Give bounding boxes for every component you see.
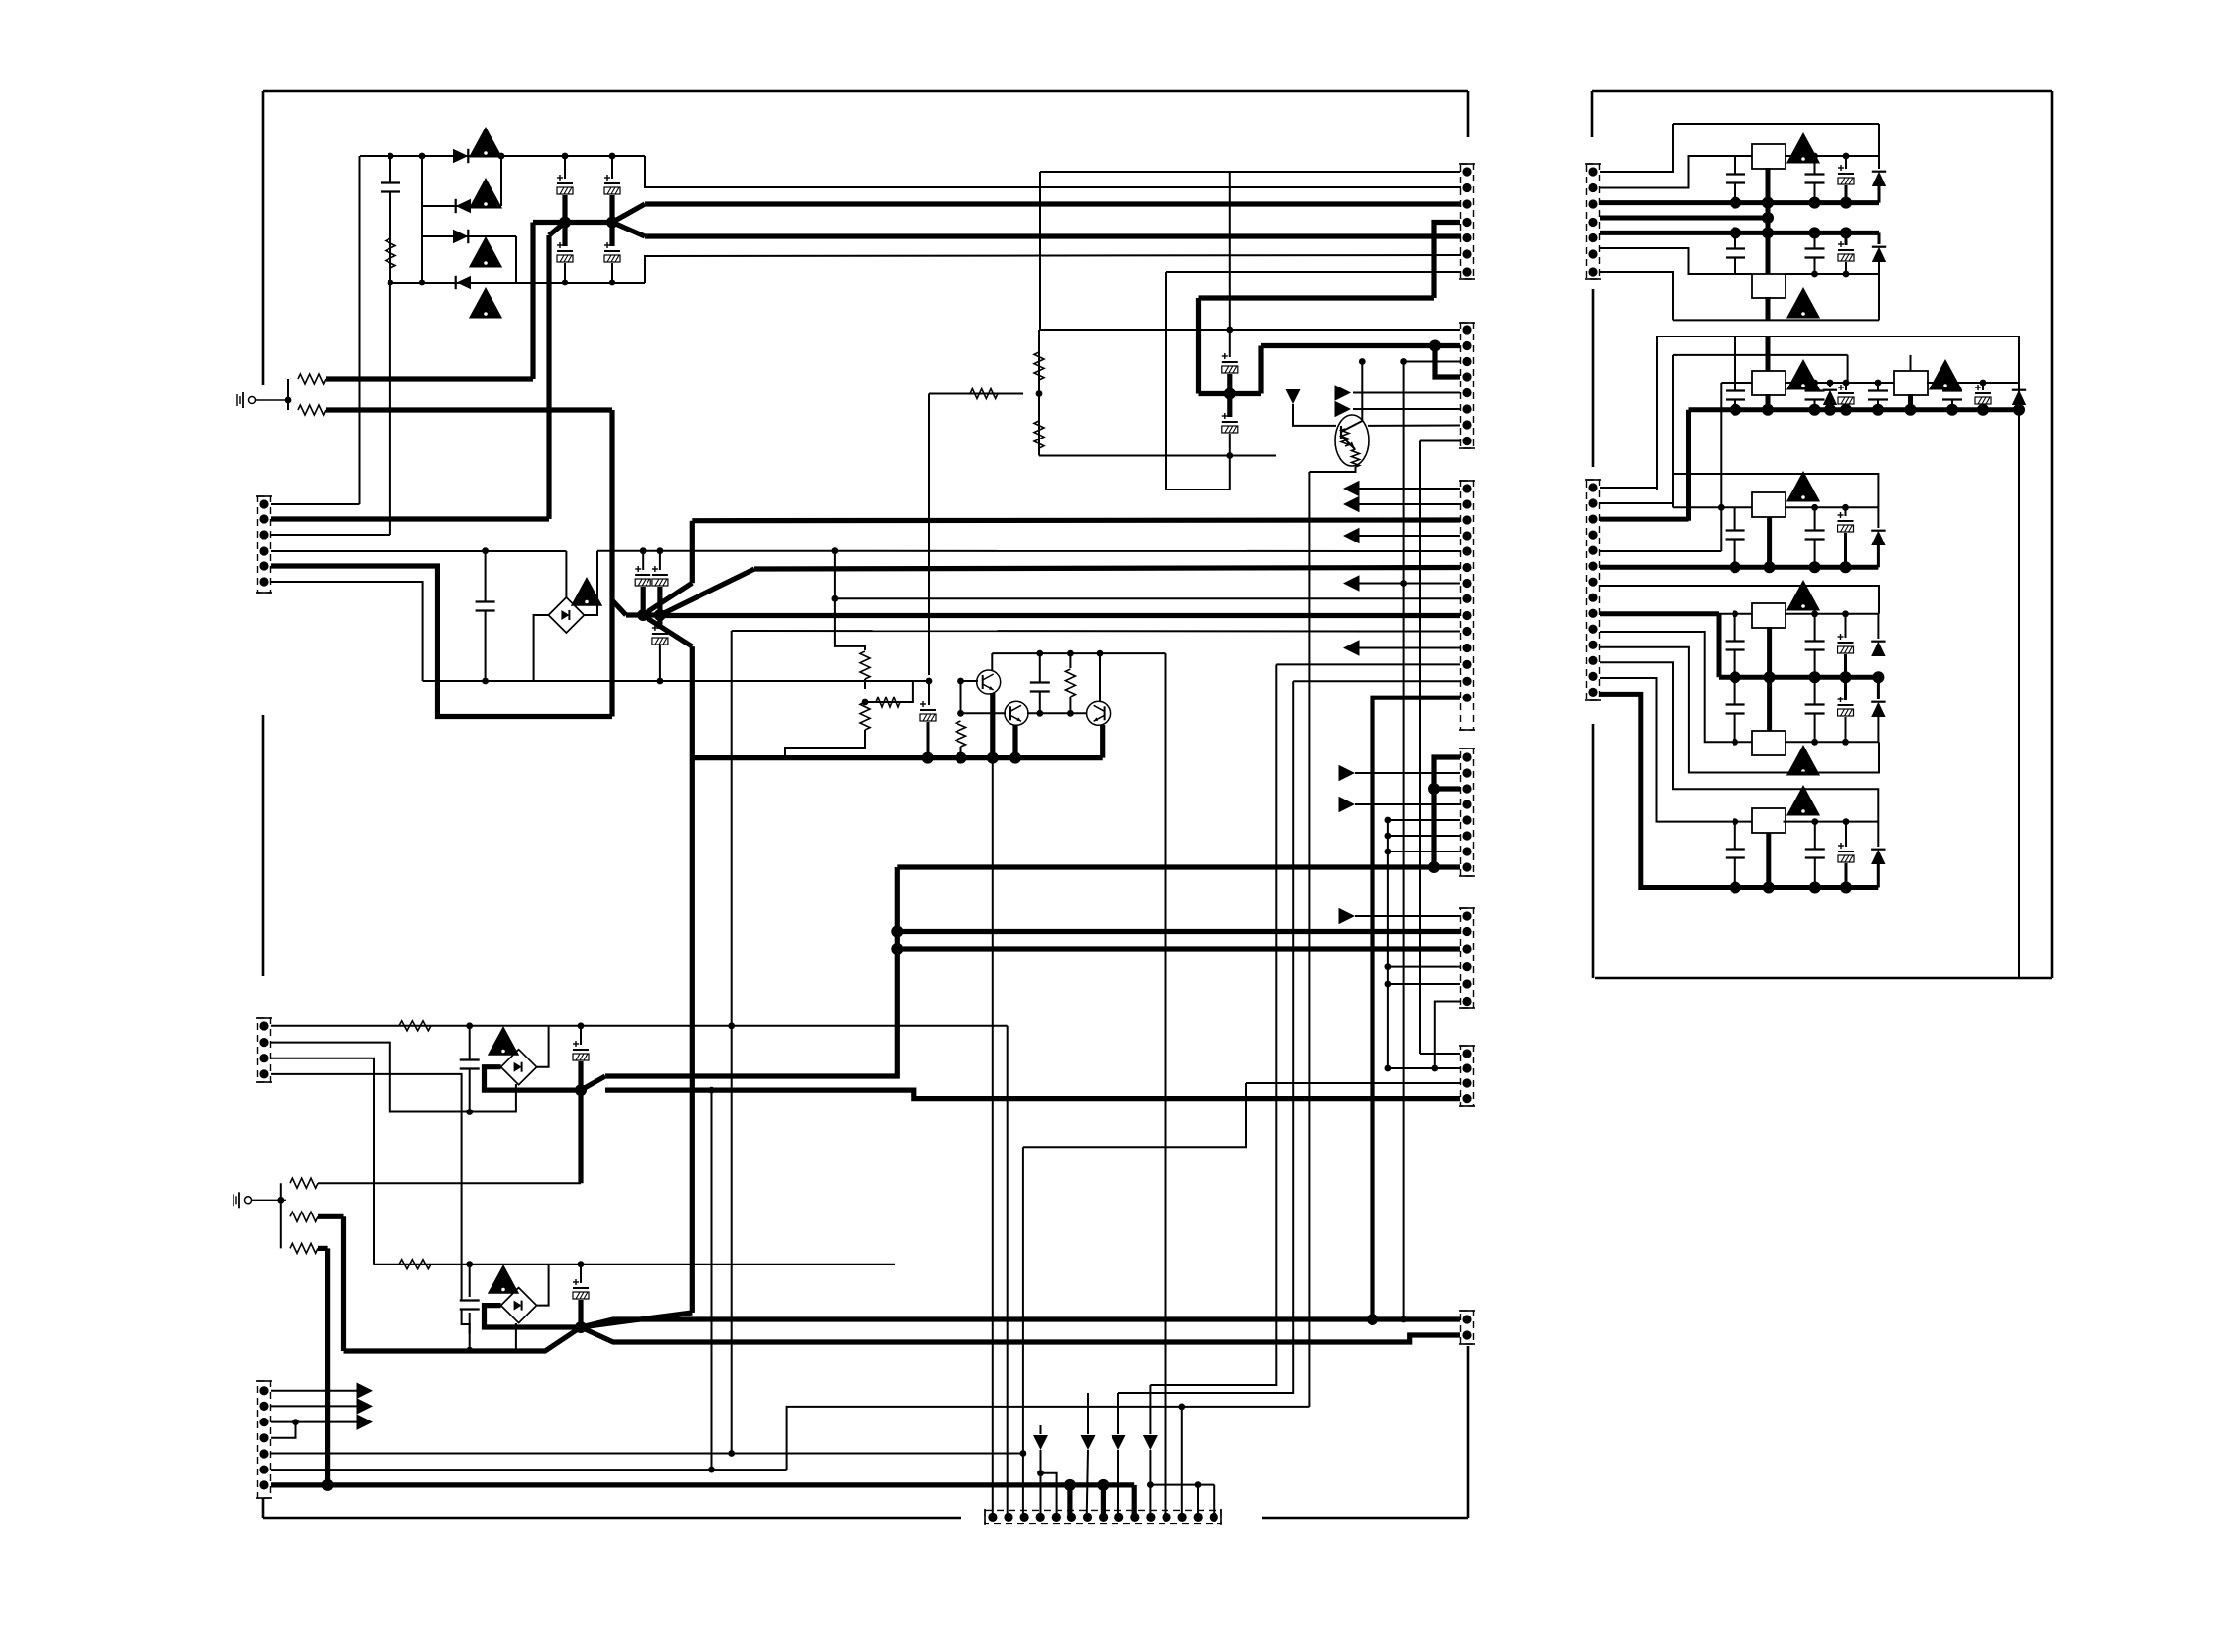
wire CNA pin4 thick elbow bbox=[1434, 223, 1460, 299]
node 610 bbox=[832, 595, 839, 602]
node e in bbox=[1732, 818, 1738, 825]
wire CNL1 pin4 bbox=[271, 550, 566, 552]
node y694 el bbox=[657, 678, 664, 685]
node arrow594 bbox=[1400, 580, 1407, 587]
wire y=643 bbox=[732, 630, 1460, 633]
wire c0 d bot bbox=[1877, 545, 1880, 567]
wire CNG pin2 elbow bbox=[271, 1043, 516, 1112]
capacitor C702 bbox=[1805, 175, 1825, 183]
wire cap col x=576 thick bbox=[562, 195, 567, 223]
node rail c bbox=[1097, 650, 1104, 657]
resistor R3 bbox=[298, 405, 326, 415]
wire thick corner 1156 bbox=[1132, 1485, 1137, 1518]
wire Q1 emitter thick bbox=[990, 693, 995, 758]
wire pairC row1 bbox=[1600, 611, 1719, 616]
wire CNL1 pin3 bbox=[271, 534, 390, 536]
wire capC4 col bbox=[1877, 383, 1879, 410]
resistor R1 bbox=[386, 238, 395, 268]
capacitor C8 bbox=[476, 602, 495, 611]
wire x=745.7 bbox=[731, 631, 733, 1454]
transistor Q602 bbox=[1005, 701, 1028, 725]
wire pairC loop bottom bbox=[1600, 647, 1879, 773]
connector CN606 bbox=[1459, 908, 1475, 1008]
connector CN608 bbox=[1459, 1311, 1475, 1344]
diode D705 bbox=[1871, 531, 1885, 545]
node regA b bbox=[1843, 153, 1850, 160]
node varr d j bbox=[1147, 1481, 1154, 1488]
right board border top bbox=[1592, 90, 2052, 93]
regulator IC703 bbox=[1752, 371, 1785, 395]
wire vert x=1301.3 low bbox=[1150, 664, 1276, 1385]
left board border left upper bbox=[262, 91, 265, 385]
wire br4 out thick bbox=[485, 1306, 582, 1327]
node 561 b bbox=[640, 547, 647, 554]
node railA 2 bbox=[1762, 197, 1774, 209]
capacitor C11 electrolytic bbox=[652, 625, 668, 645]
wire CNB pin4 thick elbow bbox=[1435, 346, 1460, 378]
node rail left bbox=[637, 609, 648, 621]
capacitor C713 bbox=[1726, 531, 1745, 540]
warning triangle W2 bbox=[469, 178, 502, 209]
wire bus3 thick y=241 bbox=[645, 233, 1461, 238]
wire thick drop x=560 bbox=[546, 235, 551, 519]
node cnd3 bbox=[1428, 783, 1440, 795]
wire Q2 base bbox=[961, 712, 1007, 714]
wire thick left drop x=543 bbox=[530, 223, 535, 380]
node railC0 bbox=[1840, 561, 1852, 573]
regulator IC708 bbox=[1752, 808, 1785, 833]
wire CNL1 pin1 bbox=[271, 503, 360, 505]
wire c0 out row bbox=[1785, 506, 1878, 508]
node q2r b bbox=[1067, 710, 1074, 717]
wire pairB loop left bbox=[1656, 336, 1658, 490]
wire br4 cap col bbox=[469, 1265, 471, 1297]
node railE bbox=[1730, 882, 1741, 894]
capacitor C724 electrolytic bbox=[1838, 843, 1854, 862]
node 914 b bbox=[891, 943, 903, 955]
wire br3 el thick bbox=[578, 1061, 583, 1090]
node A5 bbox=[609, 153, 616, 160]
node y694 cap bbox=[482, 678, 489, 685]
arrow down c bbox=[1112, 1435, 1126, 1450]
resistor R8 bbox=[860, 702, 870, 730]
capacitor C704 bbox=[1726, 249, 1745, 258]
wire circA loop right bbox=[1878, 124, 1880, 156]
wire e rail thick bbox=[1600, 694, 1878, 887]
node rowB f bbox=[1980, 380, 1987, 387]
capacitor C722 bbox=[1726, 850, 1745, 858]
node br4 cap bot bbox=[466, 1347, 473, 1354]
wire cap col x=576 bot bbox=[564, 263, 566, 283]
node 745 bottom bbox=[728, 1450, 735, 1457]
ground chassis lower bbox=[233, 1192, 286, 1208]
node br3 el top bbox=[578, 1022, 585, 1029]
capacitor C721 electrolytic bbox=[1838, 697, 1854, 716]
node railA 4 bbox=[1840, 197, 1852, 209]
wire reschain mid bbox=[864, 679, 866, 689]
arrow left y=546 bbox=[1343, 528, 1360, 544]
node 725 top bbox=[708, 1087, 715, 1094]
wire line B y=288 bbox=[390, 282, 645, 284]
node thick 1124 bbox=[1097, 1479, 1109, 1491]
node railA 3 bbox=[1809, 197, 1821, 209]
wire cap col x=624 top bbox=[611, 156, 613, 179]
wire thick X line1 bbox=[581, 1319, 1460, 1327]
wire br3 fan up bbox=[581, 1076, 605, 1090]
node 1042 dot bbox=[1020, 1450, 1027, 1457]
node railPC bbox=[1809, 671, 1821, 683]
wire cnd6 row bbox=[1388, 835, 1460, 837]
node B5 bbox=[609, 280, 616, 286]
wire thick x=1090.9 bbox=[1067, 1485, 1072, 1518]
wire br3 out thick bbox=[485, 1067, 582, 1090]
node 914 a bbox=[891, 926, 903, 938]
wire cap col x=624 thick lower bbox=[609, 223, 614, 247]
wire thick mid rail y=226.5 bbox=[533, 220, 612, 225]
regulator IC707 bbox=[1752, 731, 1785, 755]
node 1204 dot bbox=[1178, 1404, 1185, 1411]
wire thick from BR3 y=1097 bbox=[605, 867, 897, 1076]
wire cne5 row bbox=[1388, 983, 1460, 985]
wire cap col x=624 thick bbox=[609, 195, 614, 223]
wire pairC row1 right bbox=[1785, 613, 1879, 615]
node x=1253.8 thick bbox=[1224, 388, 1236, 400]
wire vert x=1060 upper bbox=[1039, 172, 1041, 330]
arrow right y=1449.6 bbox=[357, 1414, 374, 1430]
left board border right lower bbox=[1467, 1346, 1470, 1518]
wire y=464.5 bbox=[1039, 455, 1276, 457]
wire thick row y=884 bbox=[897, 864, 1460, 869]
wire Q2 emitter thick bbox=[1012, 725, 1017, 758]
warning triangle W14 bbox=[1786, 745, 1820, 776]
right board border right bbox=[2051, 91, 2054, 978]
wire capC6 bbox=[1982, 383, 1984, 390]
resistor R4 bbox=[1034, 352, 1044, 380]
wire x=1253.8 mid bbox=[1229, 330, 1231, 357]
wire Q3 emitter thick bbox=[1100, 725, 1105, 758]
wire capB3 bot bbox=[1845, 262, 1847, 274]
node gr b bbox=[956, 752, 967, 764]
connector CN601 bbox=[1459, 164, 1475, 279]
diode D1 bbox=[453, 149, 468, 163]
node pin14 bottom bbox=[1367, 1314, 1378, 1325]
wire cnd5 row bbox=[1388, 819, 1460, 821]
wire opto base bar bbox=[1340, 426, 1342, 439]
wire opto stem bbox=[1293, 404, 1336, 426]
wire cap col x=576 top bbox=[564, 156, 566, 179]
wire CNG pin1 row bbox=[271, 1025, 1008, 1027]
node pc2 a bbox=[1811, 739, 1818, 746]
node pc a bbox=[1732, 610, 1738, 617]
wire Q1 collector bbox=[991, 653, 993, 670]
wire CNB pin5 bbox=[1353, 392, 1460, 394]
wire circB loop right bbox=[1878, 274, 1880, 320]
wire CNH pin2 row bbox=[271, 1405, 357, 1407]
capacitor C720 bbox=[1805, 705, 1825, 714]
wire el col x=672.9 bot bbox=[659, 645, 661, 681]
node railC bbox=[1977, 404, 1989, 416]
node rowB a bbox=[1811, 380, 1818, 387]
wire row934 bbox=[1355, 915, 1460, 917]
wire cnf2 row bbox=[1388, 1067, 1460, 1069]
node 725 j bbox=[708, 1467, 715, 1473]
wire cap col x=576 thick lower bbox=[562, 223, 567, 247]
node railC bbox=[1872, 404, 1884, 416]
node mid rail left bbox=[559, 217, 571, 229]
wire x=1059 divider bbox=[1038, 330, 1040, 456]
node opto collector bbox=[1359, 358, 1366, 365]
wire reschain bot bbox=[785, 730, 865, 758]
wire bus2 thick y=208 bbox=[645, 201, 1461, 206]
node rowB b bbox=[1827, 380, 1834, 387]
node bus1414 b bbox=[1385, 833, 1392, 840]
capacitor C717 bbox=[1805, 642, 1825, 650]
warning triangle W4 bbox=[469, 287, 502, 319]
node railPC bbox=[1764, 671, 1776, 683]
wire arrow row y=594.5 bbox=[1359, 583, 1460, 585]
wire ladder x=526 bbox=[515, 236, 517, 283]
wire row 1513.6 bbox=[1150, 1484, 1214, 1486]
capacitor C16 bbox=[460, 1301, 480, 1310]
wire rcn2 pin1 bbox=[1600, 488, 1657, 490]
wire ladder x=430 bbox=[421, 156, 423, 283]
capacitor C715 electrolytic bbox=[1838, 512, 1854, 532]
wire pc d1 top bbox=[1877, 614, 1879, 639]
capacitor C703 electrolytic bbox=[1838, 165, 1854, 184]
wire br4 top row bbox=[374, 1264, 895, 1265]
wire x=1204.8 bbox=[1181, 1407, 1183, 1518]
wire thick x=350.5 bbox=[341, 1216, 346, 1351]
wire CNB pin8 bbox=[1420, 440, 1460, 442]
arrow left y=498 bbox=[1343, 481, 1360, 497]
wire cap col x=494.6 bbox=[485, 551, 487, 681]
capacitor C701 bbox=[1726, 175, 1745, 183]
node bus1414 d bbox=[1385, 963, 1392, 970]
transistor Q601 bbox=[977, 670, 1001, 694]
wire gnd up bbox=[287, 379, 289, 410]
wire thick drop x=624 bbox=[609, 410, 614, 717]
wire thick y=352.5 bbox=[1261, 343, 1435, 348]
wire varrow stem d bbox=[1149, 1385, 1151, 1434]
arrow opto emitter bbox=[1349, 442, 1356, 450]
resistor R7 bbox=[860, 651, 870, 679]
arrow right CNB pin6 bbox=[1335, 401, 1352, 418]
wire res x=1091.4 top bbox=[1069, 653, 1071, 668]
warning triangle W15 bbox=[1786, 785, 1820, 816]
right board border left stub bbox=[1591, 91, 1594, 137]
wire el col x=655 top bbox=[642, 551, 644, 570]
wire y=694 long bbox=[423, 680, 929, 682]
node c0 input bbox=[1718, 504, 1725, 511]
wire thick bus y=627.5 bbox=[660, 613, 1460, 618]
warning triangle W1 bbox=[469, 127, 502, 158]
wire capA2 col bbox=[1814, 156, 1816, 203]
node gr c bbox=[987, 752, 999, 764]
wire pc cap3b bbox=[1844, 677, 1847, 700]
node B2 bbox=[419, 280, 426, 286]
wire CNH pin7 thick bbox=[271, 1482, 1134, 1487]
wire regC2 out bbox=[1767, 677, 1772, 731]
wire ladder x=511 bbox=[500, 156, 502, 206]
node railC bbox=[2013, 404, 2025, 416]
arrow down a bbox=[1033, 1435, 1048, 1450]
node railPC bbox=[1872, 671, 1884, 683]
wire CNL1 pin5 thick bbox=[271, 566, 612, 717]
wire bus3 thick diag bbox=[612, 223, 645, 237]
capacitor C7 electrolytic bbox=[1222, 413, 1238, 433]
wire arrow row y=660.5 bbox=[1359, 647, 1460, 649]
node railE bbox=[1809, 882, 1821, 894]
wire bus4 elbow bbox=[645, 255, 1461, 283]
node rail b bbox=[1067, 650, 1074, 657]
wire regB out row bbox=[1785, 273, 1879, 275]
diode D704 bbox=[2012, 390, 2026, 405]
connector CN602 bbox=[1459, 323, 1475, 448]
left board border left lower stub bbox=[262, 1498, 265, 1518]
wire x=1253.8 low bbox=[1229, 434, 1231, 490]
wire thick rail y=627 bbox=[626, 612, 660, 617]
wire pairB loop2 top bbox=[1673, 354, 1848, 356]
capacitor C12 electrolytic bbox=[920, 701, 936, 721]
wire e d bot bbox=[1877, 864, 1880, 888]
wire dA bot bbox=[1878, 185, 1881, 203]
wire br4 right corner bbox=[537, 1265, 549, 1306]
node railB 2 bbox=[1762, 227, 1774, 238]
node br3 cap bot bbox=[466, 1109, 473, 1115]
wire Q3 collector bbox=[1099, 653, 1101, 701]
warning triangle W7 bbox=[488, 1265, 519, 1294]
wire arrow row y=514 bbox=[1359, 503, 1460, 505]
wire thick row y=967 bbox=[897, 946, 1460, 951]
node railC bbox=[1946, 404, 1958, 416]
wire fan diag up1 bbox=[643, 583, 692, 615]
node railC bbox=[1762, 404, 1774, 416]
wire thick y=401.5 bbox=[1199, 391, 1262, 396]
capacitor C706 electrolytic bbox=[1838, 241, 1854, 261]
capacitor C718 electrolytic bbox=[1838, 634, 1854, 653]
wire vert x=1318.2 low bbox=[1118, 681, 1293, 1393]
node railB 3 bbox=[1809, 227, 1821, 238]
wire el col x=655 thick bbox=[641, 587, 646, 615]
capacitor C711 bbox=[1942, 391, 1962, 400]
wire varrow stem b bbox=[1087, 1393, 1089, 1434]
wire pc cap1a bbox=[1734, 614, 1736, 677]
wire fan diag up2 bbox=[660, 569, 754, 615]
node ground lower bbox=[277, 1197, 284, 1204]
wire pairB row390 vert bbox=[1720, 383, 1722, 551]
wire CNA pin7 bbox=[1166, 271, 1460, 273]
wire top rail y=666.1 bbox=[992, 652, 1165, 654]
node bus1414 a bbox=[1385, 817, 1392, 824]
wire y=336 bbox=[1039, 329, 1460, 331]
resistor R15 bbox=[399, 1021, 431, 1031]
wire c0 row bbox=[1673, 506, 1752, 508]
arrow right y=1417.8 bbox=[357, 1383, 374, 1400]
wire regC out bbox=[1766, 394, 1771, 410]
capacitor C10 electrolytic bbox=[652, 566, 668, 586]
node c0 a bbox=[1811, 504, 1818, 511]
node 561 d bbox=[832, 547, 839, 554]
wire x=1188.5 long bbox=[1165, 653, 1167, 1517]
wire rcn2 pin12 loop bbox=[1600, 662, 1878, 821]
wire thick row y=949.5 bbox=[897, 929, 1460, 934]
wire opto emitter bbox=[1341, 436, 1355, 449]
capacitor C705 bbox=[1805, 249, 1825, 258]
transistor Q604 opto bbox=[1335, 415, 1369, 466]
wire circA loop top bbox=[1673, 123, 1879, 125]
transistor Q603 bbox=[1087, 701, 1111, 725]
wire fan diag to X bbox=[581, 1313, 692, 1327]
wire diamond top feed bbox=[565, 551, 567, 598]
wire circB loop bottom bbox=[1673, 319, 1879, 321]
wire x=1253.8 thick bbox=[1227, 374, 1232, 417]
wire pc cap2b bbox=[1814, 677, 1816, 742]
wire CNC pin14 thick elbow bbox=[1372, 697, 1460, 1319]
node x1430 bottom bbox=[1400, 1316, 1407, 1323]
node regB a bbox=[1811, 271, 1818, 278]
node c0 b bbox=[1842, 504, 1849, 511]
wire regB out vert thick bbox=[1766, 297, 1771, 320]
capacitor C712 electrolytic bbox=[1975, 385, 1991, 404]
wire thick x=1285 bbox=[1258, 346, 1263, 394]
warning triangle W9 bbox=[1786, 287, 1820, 319]
wire thick y=304 bbox=[1199, 295, 1435, 300]
wire capC1 col bbox=[1734, 383, 1736, 410]
node regD out bbox=[1905, 404, 1917, 416]
capacitor C14 bbox=[460, 1060, 480, 1069]
wire x=1221 bbox=[1197, 1485, 1199, 1518]
wire br3 el col bbox=[580, 1026, 582, 1045]
wire capC3 bbox=[1845, 383, 1847, 390]
diode D702 bbox=[1872, 247, 1886, 262]
wire Q2 right bbox=[1027, 712, 1087, 714]
arrow down b bbox=[1081, 1435, 1096, 1450]
wire rail thick drop bbox=[1686, 410, 1691, 521]
left board border right stub bbox=[1467, 91, 1470, 137]
node thick 352.5 bbox=[1429, 340, 1441, 352]
node railC bbox=[1840, 404, 1852, 416]
wire cnd7 row bbox=[1388, 851, 1460, 852]
wire gnd col bbox=[280, 1183, 282, 1248]
wire thick X line2 bbox=[581, 1327, 1460, 1342]
wire varr a drop bbox=[1040, 1450, 1042, 1517]
node gr a bbox=[922, 752, 934, 764]
wire gnd row1 thick bbox=[326, 376, 533, 381]
wire varrow stem a bbox=[1040, 1425, 1042, 1434]
wire pairB loop top bbox=[1657, 336, 2019, 337]
wire capB3 top bbox=[1845, 232, 1848, 245]
capacitor C13 bbox=[1030, 683, 1050, 692]
node A4 bbox=[562, 153, 569, 160]
wire gnd row2 thick bbox=[326, 407, 612, 412]
capacitor C714 bbox=[1805, 531, 1825, 540]
wire CNC pin13 bbox=[1293, 680, 1460, 682]
node rail a bbox=[1036, 650, 1043, 657]
wire fan x=705.3 up bbox=[690, 521, 695, 584]
wire br4 el col bbox=[580, 1265, 582, 1283]
arrow down opto bbox=[1286, 389, 1301, 404]
right board border left seg1 bbox=[1592, 289, 1595, 467]
node cnf2 j bbox=[1431, 1065, 1438, 1072]
wire pairC thick elbow bbox=[1717, 614, 1722, 677]
wire c0 cap3 bbox=[1845, 507, 1847, 516]
wire br3 thick down bbox=[578, 1090, 583, 1183]
node railPC bbox=[1730, 671, 1741, 683]
wire pin5 elbow bbox=[1041, 1473, 1057, 1518]
resistor R17 opto bbox=[1341, 429, 1349, 446]
connector CN604 bbox=[1459, 481, 1475, 730]
wire pairB right long bbox=[2018, 336, 2020, 978]
